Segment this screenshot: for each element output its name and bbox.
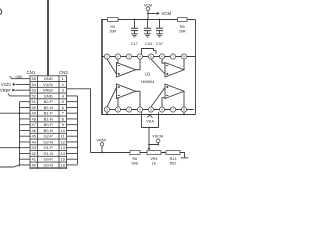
svg-text:1K: 1K — [152, 161, 157, 165]
svg-text:49: 49 — [31, 111, 36, 116]
wire pin8 stub down — [183, 112, 185, 114]
wire bottom pin chain — [104, 109, 194, 111]
potentiometer VR1 — [147, 150, 161, 154]
svg-text:VSCM: VSCM — [152, 135, 163, 139]
svg-text:GND: GND — [16, 75, 24, 79]
resistor R13 — [166, 150, 180, 154]
svg-text:VR1: VR1 — [150, 157, 157, 161]
svg-text:17: 17 — [60, 168, 65, 169]
svg-text:V12V: V12V — [1, 82, 11, 87]
junction pin1 — [106, 114, 108, 116]
partial text glyph cut at left edge — [0, 9, 1, 15]
svg-text:55: 55 — [31, 76, 36, 81]
pin circle top 1 — [104, 54, 109, 59]
capacitor C34 — [144, 20, 151, 37]
svg-text:G0-N: G0-N — [43, 162, 53, 167]
op-amp U1B — [151, 59, 184, 77]
svg-text:VDA: VDA — [146, 119, 154, 123]
svg-text:47: 47 — [31, 122, 36, 127]
svg-text:C37: C37 — [156, 42, 163, 46]
wire CN1 bus stubs — [20, 102, 31, 165]
pin circle bottom 5 — [148, 107, 153, 112]
pin circle bottom 6 — [159, 107, 164, 112]
svg-text:G1-P: G1-P — [44, 145, 54, 150]
wire GND drop to CN1 table — [47, 0, 49, 76]
svg-text:B0-P: B0-P — [44, 122, 53, 127]
svg-text:46: 46 — [31, 128, 36, 133]
junction cap C34 — [147, 19, 149, 21]
wire GND stub row4 — [8, 94, 30, 96]
resistor R4 — [108, 18, 119, 22]
svg-text:16: 16 — [60, 162, 65, 167]
svg-text:C17: C17 — [131, 42, 138, 46]
svg-text:B1-N: B1-N — [44, 116, 53, 121]
svg-text:54: 54 — [31, 82, 36, 87]
svg-text:39: 39 — [31, 168, 36, 169]
svg-text:B2-N: B2-N — [44, 105, 53, 110]
svg-text:20R: 20R — [109, 30, 116, 34]
pin circle bottom 7 — [170, 107, 175, 112]
svg-text:G1-N: G1-N — [43, 151, 53, 156]
wire CN2 bus stubs — [67, 96, 78, 165]
svg-text:G2-P: G2-P — [44, 134, 54, 139]
junction pin8 — [183, 114, 185, 116]
op-amp U1C — [107, 84, 140, 107]
svg-text:VREF: VREF — [43, 88, 54, 93]
connector CN1/CN2 pin table — [30, 76, 67, 169]
power pin VDA — [142, 112, 159, 127]
svg-text:44: 44 — [31, 139, 36, 144]
svg-text:B1-P: B1-P — [44, 111, 53, 116]
resistor R9 — [178, 18, 188, 22]
svg-text:HK8904: HK8904 — [141, 80, 154, 84]
svg-text:12: 12 — [60, 139, 65, 144]
wire top rail — [101, 19, 195, 21]
svg-text:B2-P: B2-P — [44, 99, 53, 104]
svg-text:G2-N: G2-N — [43, 139, 53, 144]
wire bus exit left row13 — [0, 147, 20, 149]
pin circle top 7 — [170, 54, 175, 59]
svg-text:R13: R13 — [170, 157, 177, 161]
svg-text:CN1: CN1 — [27, 70, 36, 75]
capacitor C37 — [156, 20, 163, 37]
svg-text:14: 14 — [60, 151, 65, 156]
svg-text:51: 51 — [31, 99, 36, 104]
wire bus exit left row7 — [0, 112, 20, 114]
wire VREF from CN2 pin3 — [67, 89, 91, 153]
wire IC left side — [101, 20, 103, 115]
wire jumper pins 4-5 top — [142, 49, 157, 54]
svg-text:20R: 20R — [179, 30, 186, 34]
capacitor C17 — [131, 20, 138, 37]
pin circle bottom 1 — [104, 107, 109, 112]
pin circle top 3 — [126, 54, 131, 59]
wire VDA to VR1 wiper — [148, 128, 150, 150]
svg-text:R9: R9 — [180, 25, 185, 29]
svg-text:5K2: 5K2 — [170, 161, 177, 165]
wire IC bottom rail — [101, 114, 195, 116]
svg-text:10: 10 — [60, 128, 65, 133]
svg-text:CN2: CN2 — [59, 70, 68, 75]
pin circle top 2 — [115, 54, 120, 59]
ground — [181, 157, 188, 159]
svg-text:VREF: VREF — [97, 138, 108, 142]
pin circle bottom 3 — [126, 107, 131, 112]
wire top pin chain — [101, 56, 195, 58]
junction cap C37 — [159, 19, 161, 21]
wire VCM branch right — [148, 13, 157, 15]
svg-text:45: 45 — [31, 134, 36, 139]
svg-text:50: 50 — [31, 105, 36, 110]
wire CN1 ground bus — [19, 102, 21, 167]
wire bottom net — [91, 153, 185, 158]
svg-text:GND: GND — [44, 76, 53, 81]
svg-text:VREF: VREF — [0, 88, 11, 93]
op-amp U1D — [151, 84, 184, 107]
wire V12V to pin 54 — [16, 83, 30, 85]
svg-text:R6: R6 — [132, 157, 137, 161]
wire VREF to pin 53 — [15, 89, 30, 91]
svg-text:V12V: V12V — [43, 82, 53, 87]
svg-text:GND: GND — [44, 93, 53, 98]
pin circle bottom 4 — [137, 107, 142, 112]
op-amp U1A — [107, 59, 140, 77]
svg-text:R2-P: R2-P — [44, 168, 53, 169]
svg-text:15: 15 — [60, 157, 65, 162]
pin circle top 4 — [137, 54, 142, 59]
svg-text:C34: C34 — [145, 42, 152, 46]
pin circle top 8 — [181, 54, 186, 59]
svg-text:G0-P: G0-P — [44, 157, 54, 162]
svg-text:41: 41 — [31, 157, 36, 162]
wire pin1 stub down — [106, 112, 108, 114]
pin circle top 6 — [159, 54, 164, 59]
svg-text:53: 53 — [31, 88, 36, 93]
wire IC right side — [195, 20, 197, 115]
pin circle bottom 2 — [115, 107, 120, 112]
resistor R6 — [130, 150, 140, 154]
junction bus row13 — [19, 147, 21, 149]
wire GND stub row1 — [10, 76, 30, 78]
wire bus exit left bottom — [0, 165, 20, 167]
pin circle bottom 8 — [181, 107, 186, 112]
svg-text:48: 48 — [31, 116, 36, 121]
svg-text:43: 43 — [31, 145, 36, 150]
junction cap C17 — [134, 19, 136, 21]
svg-text:40: 40 — [31, 162, 36, 167]
svg-text:U1: U1 — [145, 72, 151, 77]
svg-text:R4: R4 — [110, 25, 115, 29]
svg-text:13: 13 — [60, 145, 65, 150]
svg-text:5K6: 5K6 — [132, 161, 139, 165]
svg-text:B0-N: B0-N — [44, 128, 53, 133]
wire CN2 bus — [77, 96, 79, 165]
svg-text:52: 52 — [31, 93, 36, 98]
svg-text:VCM: VCM — [162, 11, 172, 16]
pin circle top 5 — [148, 54, 153, 59]
wiper arrow — [148, 148, 151, 151]
svg-text:42: 42 — [31, 151, 36, 156]
junction bus row7 — [19, 112, 21, 114]
wire VCM drop — [147, 11, 149, 20]
